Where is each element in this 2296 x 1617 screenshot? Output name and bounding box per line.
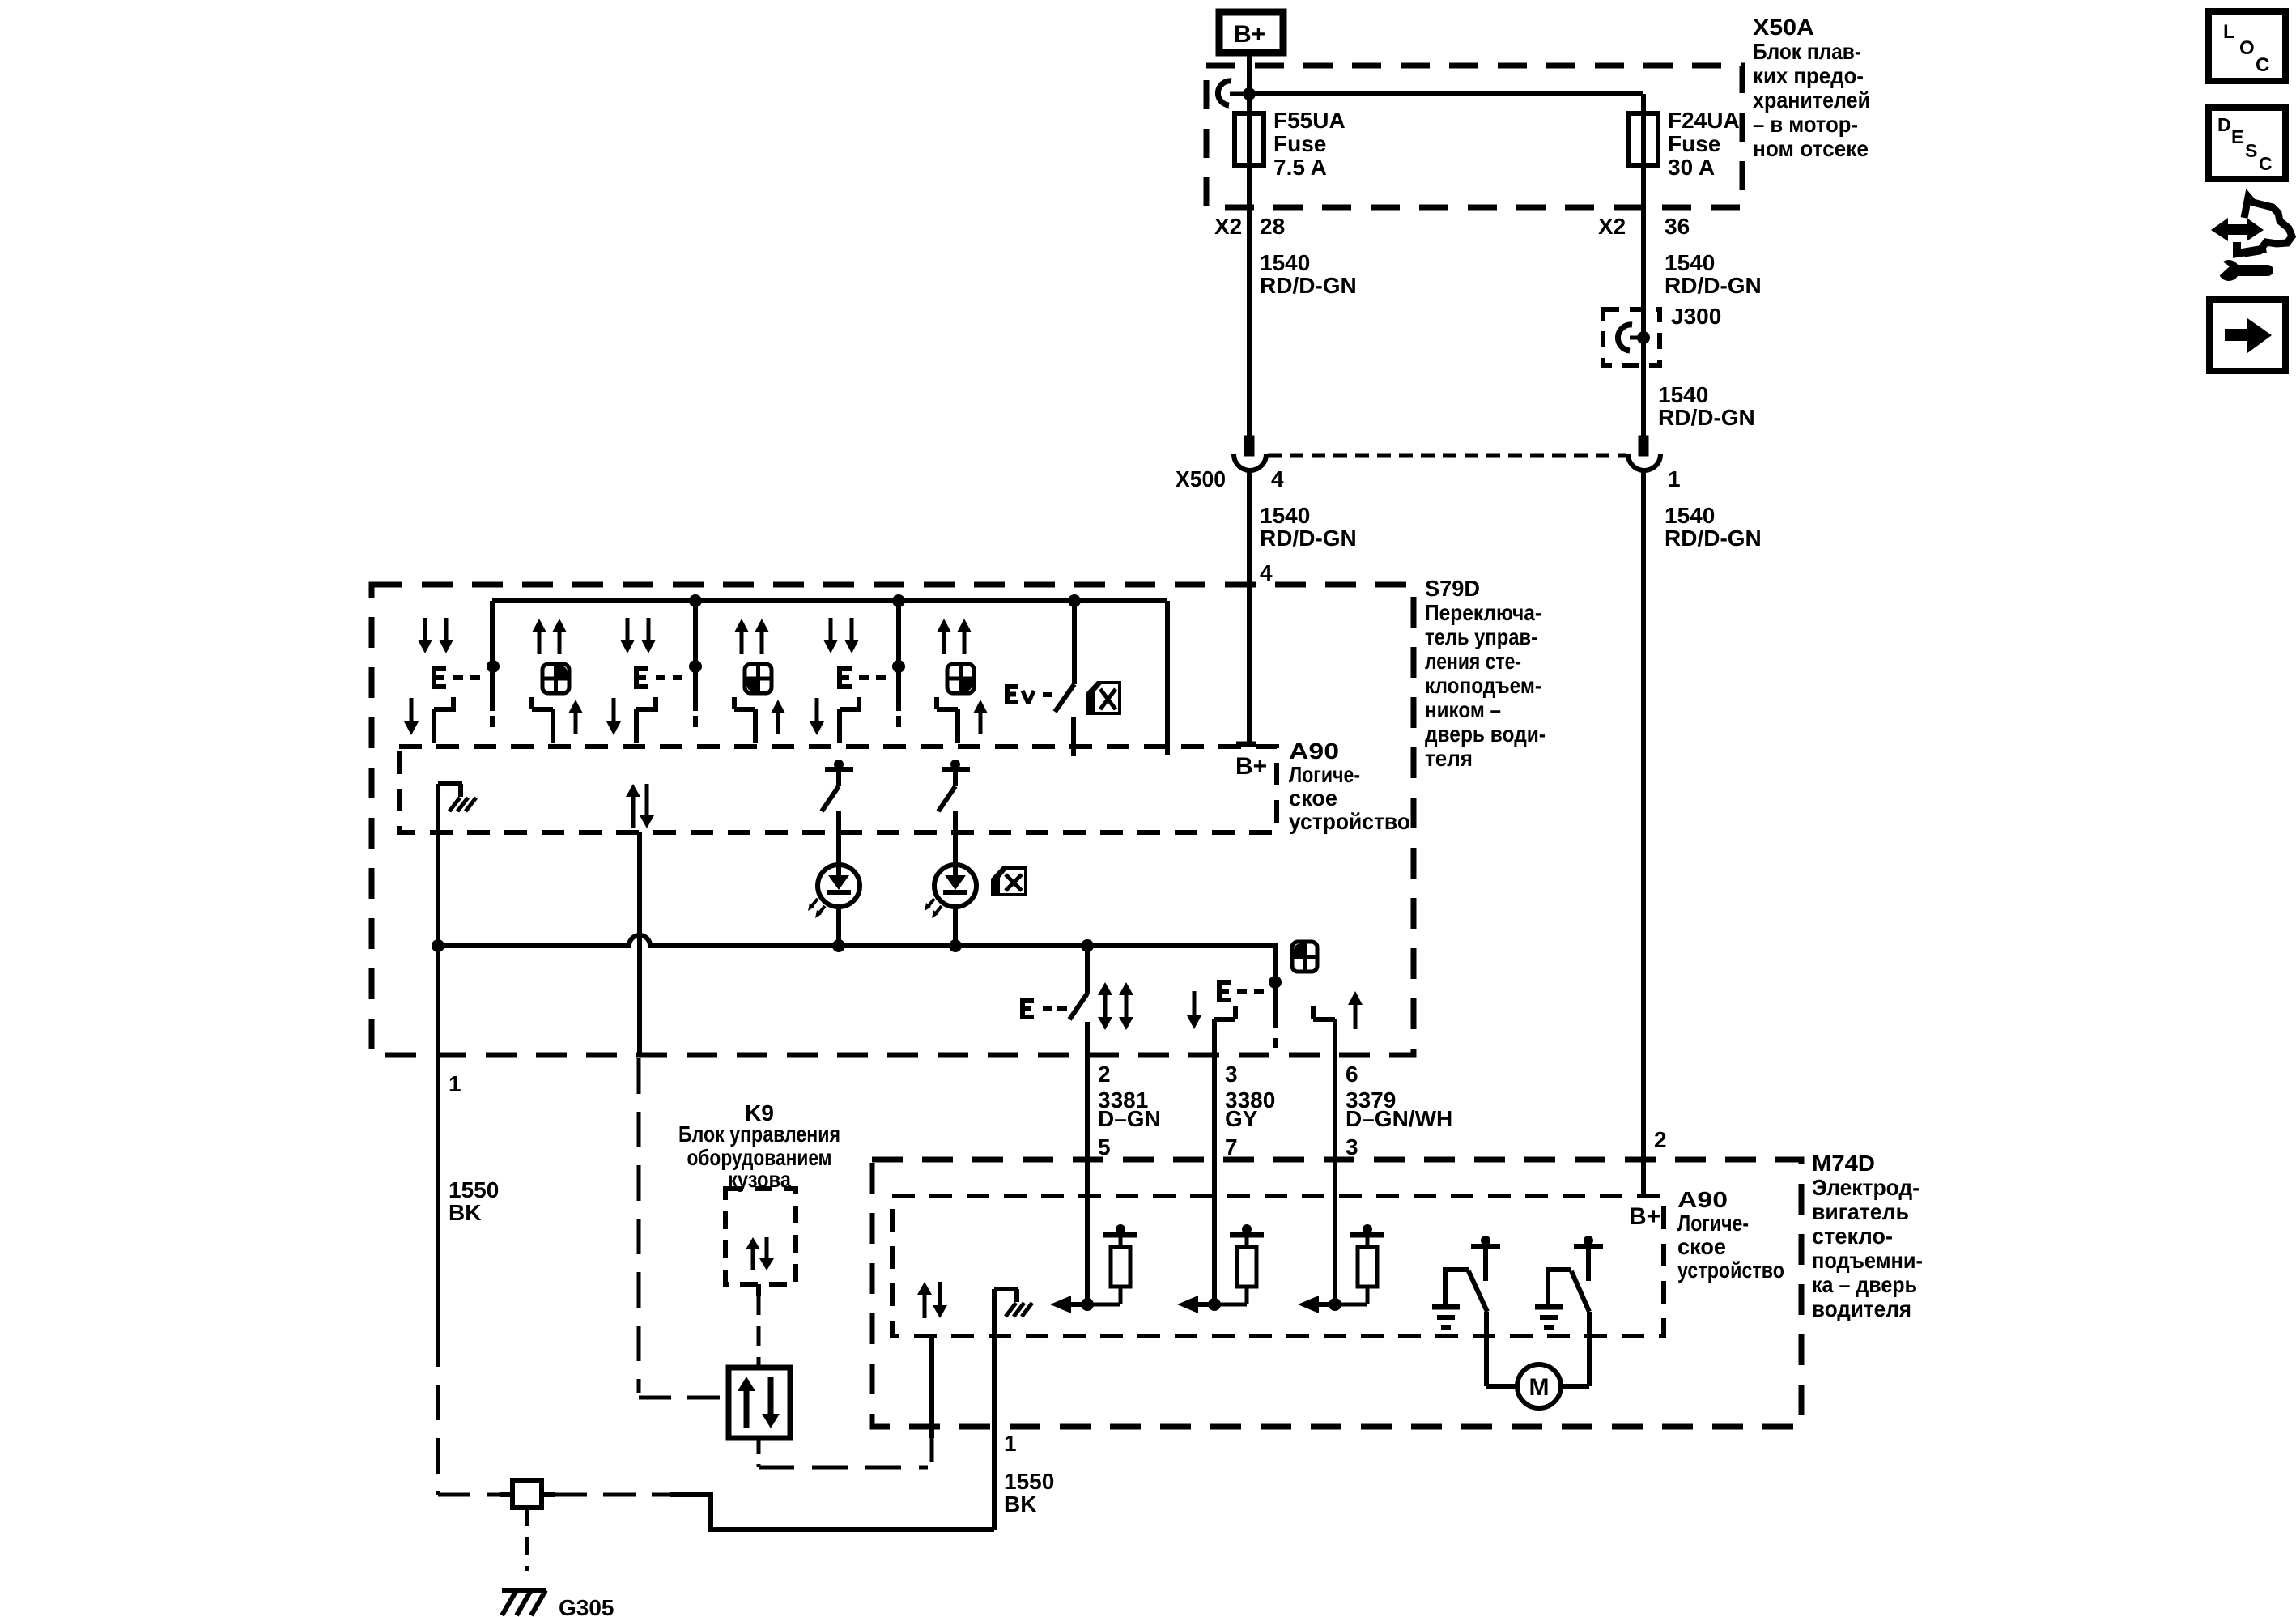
- svg-text:S79D: S79D: [1425, 576, 1480, 601]
- svg-text:ское: ское: [1677, 1234, 1726, 1259]
- svg-text:– в мотор-: – в мотор-: [1753, 112, 1858, 137]
- svg-text:4: 4: [1260, 560, 1273, 585]
- switch unit 2: up window: [532, 619, 583, 743]
- svg-text:G305: G305: [559, 1595, 614, 1617]
- svg-text:BK: BK: [449, 1200, 481, 1225]
- pin 1 label left: [449, 1071, 461, 1096]
- K9 stub and dashed wire: [756, 1284, 761, 1368]
- svg-text:6: 6: [1346, 1062, 1358, 1087]
- arrow icon box: [2209, 300, 2285, 371]
- svg-text:4: 4: [1271, 466, 1284, 491]
- svg-text:ном отсеке: ном отсеке: [1753, 136, 1869, 161]
- inline splice connector square: [500, 1480, 555, 1508]
- wire 1550 BK label left: [449, 1177, 499, 1225]
- dashed wire K9 to A90 lower: [759, 1336, 932, 1467]
- B+ label lower: [1629, 1203, 1660, 1230]
- svg-text:2: 2: [1098, 1062, 1111, 1087]
- K9 output solid box with arrows: [729, 1368, 790, 1438]
- lower bus wire with hop: [432, 935, 1282, 1048]
- ground wire down to 1550 BK: [992, 1289, 997, 1530]
- B+ terminal into A90: [1235, 744, 1267, 780]
- svg-text:RD/D-GN: RD/D-GN: [1658, 405, 1755, 430]
- fuse block X50A dashed box: [1206, 66, 1742, 207]
- svg-text:1550: 1550: [449, 1177, 499, 1202]
- connector X500 pin 4 (left): [1234, 436, 1266, 470]
- svg-text:водителя: водителя: [1812, 1296, 1911, 1321]
- window lockout icon top: [1086, 682, 1120, 715]
- wire 1540 RD/D-GN label below X500 right: [1665, 503, 1762, 551]
- pin 2 label: [1654, 1127, 1667, 1152]
- wire 1540 RD/D-GN below J300 label: [1658, 382, 1755, 430]
- svg-text:устройство: устройство: [1677, 1257, 1784, 1283]
- fixed contact wire at 1110: [892, 594, 905, 727]
- double up-down arrows: [1098, 982, 1133, 1030]
- svg-text:X2: X2: [1598, 214, 1626, 239]
- svg-text:1: 1: [449, 1071, 461, 1096]
- input resistor 3 with terminal: [1298, 1224, 1384, 1313]
- blade switch E lower left: [1023, 939, 1094, 1019]
- switch unit 1: down (rear left lower): [404, 618, 486, 743]
- motor relay contact B: [1535, 1236, 1603, 1386]
- svg-text:B+: B+: [1234, 21, 1265, 48]
- A90 lower label: [1677, 1187, 1784, 1283]
- solid run to M74D pin 1: [670, 1495, 994, 1530]
- svg-text:D–GN: D–GN: [1098, 1106, 1161, 1131]
- svg-text:вигатель: вигатель: [1812, 1199, 1909, 1224]
- svg-text:ких предо-: ких предо-: [1753, 63, 1864, 88]
- pin 1 and 1550 BK labels right: [1004, 1431, 1054, 1517]
- svg-text:7.5 A: 7.5 A: [1273, 155, 1327, 180]
- dashed run from splice: [555, 1493, 670, 1497]
- wire X500-1 down to motor M74D: [1641, 470, 1646, 1196]
- connector X500 pin 1 (right): [1628, 436, 1660, 470]
- switch E mid with contact: [1214, 980, 1269, 1019]
- S79D pin labels group 2: [1225, 1062, 1275, 1160]
- svg-text:F24UA: F24UA: [1668, 108, 1740, 133]
- svg-text:Логиче-: Логиче-: [1289, 762, 1360, 787]
- wire X500-4 down to switch S79D: [1247, 470, 1252, 744]
- B+ battery feed box: [1219, 12, 1283, 53]
- svg-text:ления сте-: ления сте-: [1425, 649, 1521, 674]
- K9 dashed box with arrows: [725, 1189, 796, 1284]
- fuse F24UA 30A: [1629, 108, 1740, 180]
- svg-text:1550: 1550: [1004, 1469, 1054, 1494]
- window icon lower: [1292, 942, 1317, 972]
- M74D label: [1812, 1151, 1923, 1321]
- svg-text:1540: 1540: [1260, 250, 1310, 275]
- svg-text:L: L: [2223, 21, 2235, 43]
- svg-text:F55UA: F55UA: [1273, 108, 1346, 133]
- logic unit A90 (in S79D) dashed box: [399, 747, 1277, 832]
- motor relay contact A: [1432, 1236, 1518, 1386]
- svg-text:B+: B+: [1235, 753, 1267, 780]
- svg-text:1540: 1540: [1665, 503, 1715, 528]
- svg-text:X500: X500: [1176, 466, 1226, 491]
- svg-text:C: C: [2259, 153, 2273, 174]
- X500 label and pin numbers: [1176, 466, 1681, 491]
- wire S79D-2 to M74D-5: [1085, 1022, 1090, 1304]
- svg-text:1540: 1540: [1665, 250, 1715, 275]
- svg-text:тель управ-: тель управ-: [1425, 624, 1537, 649]
- svg-text:RD/D-GN: RD/D-GN: [1260, 526, 1357, 551]
- pin 4 label at S79D entry: [1260, 560, 1273, 585]
- svg-text:A90: A90: [1289, 738, 1339, 764]
- svg-text:C: C: [2256, 54, 2269, 76]
- ground symbol inside A90 lower: [994, 1289, 1032, 1317]
- LED indicator switch 1: [808, 760, 860, 952]
- window motor M74D dashed box: [872, 1160, 1801, 1427]
- top bus wire inside S79D: [492, 601, 1167, 755]
- connector hook at J300: [1618, 325, 1650, 351]
- svg-text:A90: A90: [1677, 1187, 1728, 1212]
- connector hook at X50A entry: [1218, 81, 1245, 105]
- svg-text:стекло-: стекло-: [1812, 1223, 1893, 1249]
- J300 label: [1671, 304, 1721, 329]
- svg-text:2: 2: [1654, 1127, 1667, 1152]
- svg-text:GY: GY: [1225, 1106, 1258, 1131]
- svg-text:BK: BK: [1004, 1491, 1036, 1517]
- connector pins X2 28 / X2 36: [1214, 214, 1690, 239]
- LED indicator switch 2: [925, 760, 976, 952]
- svg-text:Fuse: Fuse: [1668, 131, 1720, 156]
- A90 upper label: [1289, 738, 1410, 834]
- svg-text:ником –: ником –: [1425, 697, 1501, 722]
- svg-text:ка – дверь: ка – дверь: [1812, 1272, 1917, 1297]
- svg-text:M74D: M74D: [1812, 1151, 1875, 1176]
- svg-text:Блок управления: Блок управления: [678, 1121, 840, 1147]
- fixed contact wire at 859: [689, 594, 702, 727]
- svg-text:30 A: 30 A: [1668, 155, 1715, 180]
- input resistor 2 with terminal: [1177, 1224, 1264, 1313]
- wire from B+ to fuse F55UA: [1247, 53, 1252, 436]
- svg-text:Блок плав-: Блок плав-: [1753, 39, 1861, 64]
- wrench icon: [2216, 257, 2273, 281]
- logic wire from A90 to K9: [639, 832, 727, 1398]
- logic unit A90 (in M74D) dashed box: [892, 1196, 1664, 1336]
- svg-text:1540: 1540: [1658, 382, 1708, 407]
- svg-text:X50A: X50A: [1753, 15, 1814, 40]
- svg-text:теля: теля: [1425, 746, 1473, 771]
- wire S79D-3 to M74D-7: [1212, 1019, 1217, 1304]
- svg-text:дверь води-: дверь води-: [1425, 721, 1546, 747]
- fuse F55UA 7.5A: [1235, 108, 1346, 180]
- switch unit 3: down: [606, 618, 689, 743]
- svg-text:X2: X2: [1214, 214, 1242, 239]
- dashed run to splice: [438, 1493, 500, 1497]
- switch unit 4: up window: [734, 619, 785, 743]
- switch S79D dashed box: [372, 585, 1414, 1055]
- up/down arrows inside A90 upper: [626, 784, 654, 828]
- wire jumper to F24UA: [1249, 94, 1643, 436]
- svg-text:28: 28: [1260, 214, 1285, 239]
- LOC icon box: [2209, 11, 2285, 81]
- svg-text:D: D: [2217, 114, 2231, 135]
- svg-text:RD/D-GN: RD/D-GN: [1260, 273, 1357, 298]
- svg-text:устройство: устройство: [1289, 809, 1410, 834]
- svg-text:M: M: [1529, 1374, 1550, 1401]
- svg-text:1: 1: [1004, 1431, 1017, 1456]
- wire 1540 RD/D-GN label below X500 left: [1260, 503, 1357, 551]
- S79D label: [1425, 576, 1546, 771]
- svg-text:RD/D-GN: RD/D-GN: [1665, 273, 1762, 298]
- svg-text:3: 3: [1225, 1062, 1238, 1087]
- S79D pin labels group 1: [1098, 1062, 1161, 1160]
- svg-text:1: 1: [1668, 466, 1681, 491]
- X50A fuse block label: [1753, 15, 1870, 161]
- DESC icon box: [2209, 108, 2285, 179]
- single down arrow mid: [1187, 991, 1201, 1029]
- svg-text:B+: B+: [1629, 1203, 1660, 1230]
- input resistor 1 with terminal: [1050, 1224, 1137, 1313]
- svg-text:Электрод-: Электрод-: [1812, 1175, 1920, 1200]
- svg-text:5: 5: [1098, 1134, 1111, 1160]
- svg-text:подъемни-: подъемни-: [1812, 1248, 1923, 1273]
- svg-text:Fuse: Fuse: [1273, 131, 1326, 156]
- node: junction of B+ feed: [1243, 87, 1256, 100]
- fixed contact wire at 608: [487, 601, 500, 727]
- svg-text:3: 3: [1346, 1134, 1358, 1160]
- contact and wire S79D-6 to M74D-3: [1313, 1006, 1335, 1304]
- wire 1550 BK left vertical: [436, 790, 440, 1495]
- car direction icon: [2211, 197, 2292, 253]
- svg-text:ское: ское: [1289, 785, 1337, 811]
- splice J300 dashed box: [1603, 309, 1660, 365]
- switch unit 5: down: [810, 618, 892, 743]
- ground symbol inside A90 upper: [438, 784, 476, 832]
- svg-text:Логиче-: Логиче-: [1677, 1211, 1749, 1236]
- svg-text:O: O: [2239, 37, 2255, 59]
- window icon middle: [992, 867, 1026, 896]
- svg-text:36: 36: [1665, 214, 1690, 239]
- master lockout switch Ev: [1007, 594, 1081, 756]
- switch unit 6: up window: [937, 619, 988, 743]
- svg-text:7: 7: [1225, 1134, 1238, 1160]
- svg-text:S: S: [2245, 140, 2257, 161]
- motor M: [1517, 1364, 1561, 1408]
- single up arrow right: [1348, 991, 1363, 1029]
- svg-text:D–GN/WH: D–GN/WH: [1346, 1106, 1452, 1131]
- S79D pin labels group 3: [1346, 1062, 1452, 1160]
- svg-text:J300: J300: [1671, 304, 1721, 329]
- svg-text:Переключа-: Переключа-: [1425, 600, 1541, 625]
- wire 1540 RD/D-GN left label: [1260, 250, 1357, 298]
- svg-text:RD/D-GN: RD/D-GN: [1665, 526, 1762, 551]
- svg-text:E: E: [2231, 126, 2243, 147]
- wire 1540 RD/D-GN right label: [1665, 250, 1762, 298]
- connector X500 dashed body line: [1268, 454, 1626, 458]
- svg-text:1540: 1540: [1260, 503, 1310, 528]
- ground G305: [502, 1508, 614, 1617]
- K9 label: [678, 1100, 840, 1192]
- svg-text:хранителей: хранителей: [1753, 87, 1870, 113]
- svg-text:клоподъем-: клоподъем-: [1425, 673, 1541, 698]
- up/down arrows inside A90 lower: [917, 1282, 947, 1318]
